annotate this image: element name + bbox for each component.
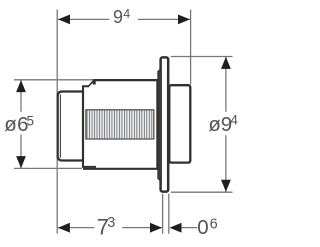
- svg-text:ø: ø: [4, 113, 17, 136]
- svg-text:3: 3: [107, 215, 115, 231]
- svg-text:9: 9: [113, 7, 123, 27]
- svg-text:4: 4: [230, 112, 238, 127]
- svg-text:4: 4: [123, 7, 130, 21]
- svg-text:6: 6: [210, 217, 218, 233]
- svg-text:ø: ø: [208, 113, 221, 136]
- svg-text:5: 5: [27, 113, 35, 128]
- svg-text:0: 0: [197, 216, 208, 239]
